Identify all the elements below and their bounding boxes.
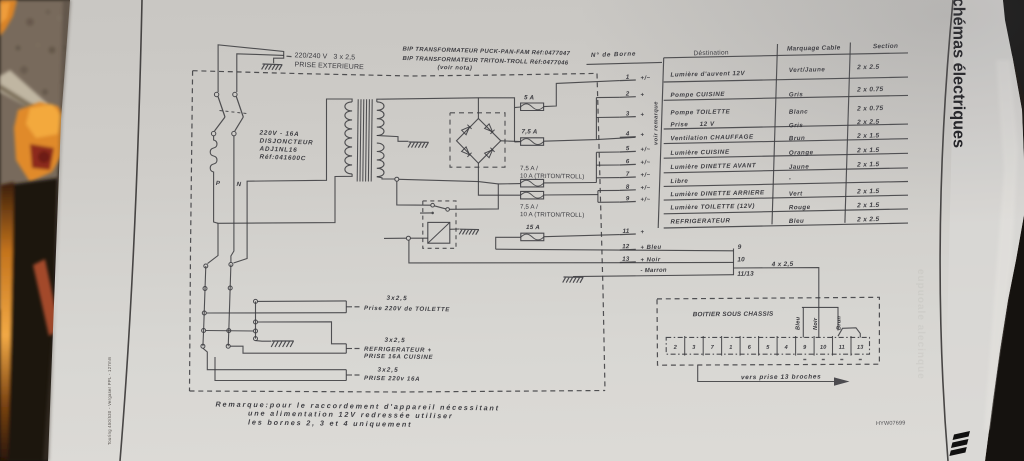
relay switch contact 2	[446, 208, 450, 212]
label 9	[738, 244, 742, 251]
svg-text:(voir nota): (voir nota)	[437, 65, 472, 72]
wire fuse bus to F1	[515, 106, 521, 109]
table column line marquage/section	[845, 43, 851, 223]
relay switch blade	[434, 206, 446, 209]
terminal 6 symbol	[640, 160, 650, 166]
drawing number HYW07699	[876, 420, 906, 427]
table row line 0	[664, 53, 908, 58]
terminal 12 tick	[620, 248, 636, 251]
table destination Libre	[670, 178, 688, 185]
wire P down to bus	[214, 180, 218, 223]
relay dashed box	[423, 201, 456, 248]
wire bridge DC+ to fuse bus	[501, 140, 521, 143]
terminal 1 tick	[620, 79, 636, 82]
node N bus 1	[229, 263, 233, 267]
label N	[236, 181, 241, 188]
label 7,5A / lower	[520, 204, 538, 211]
terminal 11 tick	[620, 233, 636, 236]
label voir nota	[437, 65, 472, 72]
label Brun rotated	[837, 315, 843, 330]
terminal 11 symbol	[640, 230, 644, 236]
page border line right (curved)	[940, 0, 953, 461]
shadow under paper left edge	[43, 0, 71, 461]
svg-text:ADJ1NL16: ADJ1NL16	[258, 145, 297, 153]
table row line 2	[664, 95, 908, 100]
wire F3 input	[449, 184, 520, 210]
label N de Borne	[591, 50, 637, 59]
publisher logo bottom-right corner	[949, 431, 970, 456]
terminal 5 symbol	[640, 147, 650, 153]
terminal strip separator 6	[776, 336, 778, 356]
breaker thermal element squiggle	[210, 136, 217, 180]
breaker pole P blade	[218, 97, 225, 118]
wire N down to bus	[231, 136, 234, 263]
node N bus 4	[226, 344, 230, 348]
terminal 4 tick	[620, 136, 636, 139]
wire secondary top to fuse bus	[478, 98, 514, 108]
table row line 7	[664, 182, 908, 187]
cable T-bar in boitier	[802, 306, 839, 308]
table section 2 x 1.5 152	[856, 147, 879, 154]
table destination REFRIGERATEUR	[670, 217, 730, 225]
terminal strip separator 5	[758, 336, 760, 356]
terminal 8 number	[626, 184, 630, 191]
terminal strip number 11	[839, 345, 845, 351]
terminal 7 tick	[620, 176, 636, 179]
node earth bus 2	[254, 320, 258, 324]
wire F1 output to terminal 1	[544, 81, 620, 107]
table row line 8	[664, 195, 908, 200]
outlet2 terminal dash	[355, 348, 360, 350]
svg-text:vers prise 13 broches: vers prise 13 broches	[741, 373, 821, 381]
label BIP TRANSFORMATEUR TRITON-TROLL	[402, 56, 568, 67]
svg-text:PRISE 220v 16A: PRISE 220v 16A	[364, 375, 420, 383]
table destination Lumière TOILETTE (12V)	[670, 203, 755, 212]
wire secondary junction to relay common	[397, 181, 431, 205]
svg-text:1: 1	[729, 345, 732, 351]
svg-text:Bleu: Bleu	[796, 316, 802, 330]
top-right paper shading	[500, 0, 1024, 300]
terminal 9 tick	[620, 201, 636, 204]
gold stick on carpet	[0, 70, 48, 114]
transformer primary bottom lead	[208, 174, 353, 264]
wire outlet3 line N	[215, 357, 346, 381]
wire outlet2 line earth	[258, 322, 347, 344]
table destination Lumière CUISINE	[670, 149, 730, 157]
terminal 4 symbol	[640, 132, 644, 138]
node battery feed circle	[406, 236, 410, 240]
table section 2 x 1.5 138	[856, 132, 879, 139]
breaker pole P lower contact	[211, 131, 215, 135]
wire outlet1 line P	[206, 312, 346, 314]
wire drop terminal 9	[802, 307, 804, 337]
node earth bus 3	[254, 329, 258, 333]
terminal 8 symbol	[640, 185, 650, 191]
jumper hump terminals 11-13	[838, 328, 860, 338]
label 15 A	[526, 224, 540, 231]
table marquage Vert 196	[789, 190, 803, 197]
svg-text:HYW07699: HYW07699	[876, 420, 906, 427]
wire outlet2 line N	[230, 346, 346, 353]
terminal strip number 1	[729, 345, 732, 351]
ground symbol prise exterieure	[262, 64, 283, 70]
transformer secondary winding lower half	[377, 143, 384, 177]
terminal strip box	[666, 337, 869, 354]
wire battery feed to relay coil	[410, 237, 427, 239]
terminal strip number 5	[766, 345, 770, 351]
label 220V - 16A DISJONCTEUR	[258, 129, 299, 138]
table destination Lumière DINETTE AVANT	[670, 162, 756, 171]
table marquage Gris 127	[789, 122, 804, 129]
fuse F5 15A	[521, 233, 544, 241]
label 10 A TRITON/TROLL lower	[520, 211, 584, 219]
label 7,5 A	[521, 128, 537, 135]
cable junction bus vertical	[733, 249, 735, 276]
jumper stub terminal 8	[598, 189, 620, 191]
node secondary bottom junction	[395, 177, 399, 181]
bridge diode D1 top-left	[462, 125, 472, 135]
terminal 1 number	[626, 74, 630, 81]
node P bus 5	[201, 344, 205, 348]
terminal 7 symbol	[640, 173, 650, 179]
terminal 5 number	[626, 145, 630, 152]
wire earth bus to ground symbol	[256, 340, 272, 343]
terminal 3 number	[626, 110, 630, 117]
dark background beyond paper bottom-right	[986, 218, 1024, 461]
terminal 7 number	[626, 171, 630, 178]
table marquage - 180	[789, 175, 792, 182]
label BIP TRANSFORMATEUR PUCK-PAN-FAM	[402, 47, 570, 58]
table section 2 x 0.75 92	[856, 86, 883, 94]
orange object top-left corner	[0, 0, 17, 36]
wire relay coil to ground	[450, 228, 460, 230]
carpet texture top-left	[0, 0, 72, 310]
label 7,5A / upper	[520, 165, 538, 172]
svg-text:3x2,5: 3x2,5	[384, 337, 405, 344]
terminal strip separator 7	[795, 336, 797, 356]
fuse F2 7.5A	[521, 138, 544, 146]
table section 2 x 1.5 167	[856, 161, 879, 168]
table column line destination/marquage	[772, 44, 778, 224]
label P	[216, 180, 221, 187]
terminal strip separator 4	[739, 336, 741, 356]
table row line 3	[664, 124, 908, 129]
table destination Prise 12 V	[670, 121, 715, 129]
jumper stub terminal 7	[596, 177, 619, 179]
ground symbol relay	[459, 229, 479, 235]
label vers prise 13 broches	[741, 373, 821, 381]
table row line 9	[664, 209, 908, 214]
bus earth vertical	[255, 301, 257, 338]
wire bridge top vertex to secondary	[477, 98, 479, 119]
remark note line1	[215, 400, 500, 413]
label Bleu rotated	[796, 316, 802, 330]
terminal 2 symbol	[640, 92, 644, 98]
table section 2 x 2.5 222	[856, 216, 879, 223]
label 220/240 V 3 x 2,5	[294, 52, 355, 61]
jumper bracket terminals 5-6-7	[595, 152, 597, 182]
table header Section	[873, 43, 898, 51]
node earth bus 4	[254, 337, 258, 341]
terminal 2 tick	[620, 96, 636, 99]
ghost bleed-through text right side	[915, 269, 926, 380]
terminal strip separator 8	[813, 336, 815, 356]
wire fuse feed bus vertical	[514, 108, 516, 142]
terminal 13 symbol	[640, 257, 660, 264]
terminal strip number 2	[673, 345, 678, 351]
terminal marron symbol	[640, 268, 667, 274]
svg-text:BOITIER SOUS CHASSIS: BOITIER SOUS CHASSIS	[693, 311, 774, 319]
node N bus 2	[228, 286, 232, 290]
paper right curled edge highlight	[944, 0, 1024, 461]
table section 2 x 1.5 194	[856, 188, 879, 195]
tiny rotated margin text bottom-left	[107, 356, 112, 445]
outlet1 terminal dash	[355, 306, 360, 308]
wire mains N to prise exterieure	[237, 54, 284, 92]
rectifier dashed box	[450, 113, 505, 167]
svg-text:N: N	[236, 181, 241, 188]
wire drop Brun	[837, 307, 839, 330]
breaker pole N lower contact	[232, 131, 236, 135]
wire outlet3 line P	[203, 348, 346, 370]
page title 'Schemas electriques' rotated	[950, 0, 968, 148]
svg-text:4: 4	[784, 345, 789, 351]
label 10 A TRITON/TROLL upper	[520, 173, 584, 181]
label 4 x 2,5	[771, 261, 794, 268]
terminal 3 tick	[620, 116, 636, 119]
label 5 A	[524, 94, 535, 101]
wire row marron from ground	[573, 275, 734, 277]
svg-text:PRISE 16A CUISINE: PRISE 16A CUISINE	[364, 353, 434, 361]
table row line 1	[664, 77, 908, 82]
breaker coupling dashed link	[220, 111, 247, 114]
bridge diode D2 top-right	[485, 124, 495, 134]
svg-text:11: 11	[839, 345, 845, 351]
table marquage Orange 155	[789, 149, 814, 157]
outlet1 terminal bracket	[345, 301, 347, 313]
terminal 2 number	[625, 90, 630, 97]
bus N vertical	[228, 265, 231, 347]
cable to boitier	[734, 268, 819, 338]
outlet2 terminal bracket	[345, 344, 347, 353]
jumper stub terminal 9	[598, 201, 620, 203]
terminal 12 symbol	[640, 245, 661, 252]
terminal 13 tick	[620, 261, 636, 264]
transformer primary top lead	[234, 99, 353, 263]
page border line left	[120, 0, 142, 461]
label 3x2,5 outlet3	[377, 367, 398, 374]
svg-text:3x2,5: 3x2,5	[386, 295, 407, 302]
jumper stub terminal 5	[596, 151, 619, 153]
svg-text:3x2,5: 3x2,5	[377, 367, 398, 374]
dark floor lower-left with lamp glow	[0, 178, 58, 461]
table marquage Rouge 209	[789, 204, 811, 211]
arrow vers prise 13 broches	[698, 365, 834, 381]
svg-text:10: 10	[820, 345, 827, 351]
table header Marquage Cable	[787, 44, 841, 52]
node P bus 3	[202, 311, 206, 315]
wire F2 output to terminal 4	[544, 137, 636, 141]
remark note line3	[248, 418, 413, 429]
terminal 12 number	[622, 243, 630, 250]
table destination Ventilation CHAUFFAGE	[670, 134, 754, 143]
relay switch lower contact dot	[431, 212, 434, 215]
terminal strip number 4	[784, 345, 789, 351]
orange toy object left side	[14, 102, 68, 182]
terminal strip number 13	[857, 345, 864, 351]
table destination Pompe TOILETTE	[670, 108, 730, 116]
ground symbol transformer center tap	[408, 142, 429, 148]
dark background beyond paper top-right corner	[1003, 0, 1024, 95]
table header Destination	[693, 49, 728, 57]
wire bus tie line	[206, 330, 254, 333]
ground symbol outlets	[271, 341, 294, 347]
table row line 6	[664, 168, 908, 173]
label REFRIGERATEUR +	[364, 346, 432, 354]
bus P vertical	[203, 266, 206, 346]
label 10	[737, 256, 745, 263]
terminal 6 tick	[620, 163, 636, 166]
boitier sous chassis dashed box	[657, 297, 879, 365]
outer dashed enclosure box	[193, 71, 597, 76]
terminal strip number 3	[692, 345, 696, 351]
table left border	[658, 58, 664, 228]
fuse F4 7.5A/10A	[521, 191, 544, 199]
node P bus 1	[204, 264, 208, 268]
label Noir rotated	[813, 317, 819, 330]
label 11/13	[737, 271, 754, 278]
node earth bus 1	[254, 299, 258, 303]
bridge diode D4 bottom-right	[485, 148, 495, 158]
svg-text:Noir: Noir	[813, 317, 819, 330]
wire F3 output to bracket 5-6-7	[544, 182, 597, 184]
wire F5 output to terminal 11	[544, 235, 620, 237]
label voir remarque rotated	[654, 101, 660, 145]
jumper bracket terminals 8-9	[597, 191, 599, 203]
fuse F1 5A	[521, 103, 544, 111]
fuse F3 7.5A/10A	[521, 179, 544, 187]
terminal strip number 6	[748, 345, 752, 351]
wire outlet1 line earth	[258, 300, 347, 303]
relay coil box	[428, 222, 450, 243]
node P bus 2	[203, 287, 207, 291]
table destination Lumière d'auvent 12V	[670, 70, 745, 79]
transformer secondary bottom lead	[377, 177, 395, 179]
terminal strip number 10	[820, 345, 827, 351]
label Prise 220V de TOILETTE	[364, 305, 450, 314]
wire secondary bottom to fuse F3 feed	[399, 179, 499, 184]
table marquage Gris 96	[789, 91, 804, 98]
table destination Pompe CUISINE	[670, 91, 725, 99]
breaker pole N blade	[236, 97, 243, 118]
terminal 1 symbol	[640, 76, 650, 82]
terminal 9 symbol	[640, 197, 650, 203]
table marquage Bleu 223	[789, 218, 805, 225]
wire row 13 Noir	[409, 240, 734, 263]
remark note line2	[248, 409, 454, 421]
jumper bracket terminals 2-3-4	[595, 98, 597, 140]
jumper stub terminal 2	[596, 96, 619, 98]
ground symbol marron	[563, 277, 584, 283]
terminal strip number 7	[711, 345, 715, 351]
terminal 8 tick	[620, 189, 636, 192]
table marquage Jaune 169	[789, 163, 810, 170]
transformer secondary top lead	[377, 98, 479, 102]
transformer secondary winding upper half	[377, 102, 384, 136]
table row line 10	[664, 223, 908, 228]
terminal strip separator 9	[832, 336, 834, 356]
svg-text:Prise 220V de TOILETTE: Prise 220V de TOILETTE	[364, 305, 450, 314]
wire F5 input from battery feed	[496, 237, 521, 249]
jumper stub terminal 6	[596, 164, 619, 166]
terminal dash prise exterieure	[287, 55, 292, 57]
underline N de Borne	[587, 62, 663, 64]
svg-text:Brun: Brun	[837, 315, 843, 330]
wire F4 output to bracket 8-9	[544, 194, 598, 196]
table marquage Blanc 114	[789, 108, 809, 115]
svg-text:13: 13	[857, 345, 864, 351]
table section 2 x 2.5 69	[856, 64, 879, 71]
wire battery feed left stub	[384, 237, 406, 239]
terminal strip number 9	[803, 345, 807, 351]
wire to relay lower contact	[420, 212, 431, 214]
bridge diamond	[457, 119, 501, 164]
table section 2 x 2.5 124	[856, 119, 879, 126]
node N bus 3	[227, 329, 231, 333]
node P bus 4	[202, 329, 206, 333]
wire row 12 Bleu	[496, 249, 734, 251]
outlet3 terminal bracket	[345, 370, 347, 381]
table section 2 x 1.5 207	[856, 202, 879, 209]
transformer secondary center tap to ground	[377, 136, 409, 142]
terminal 5 tick	[620, 150, 636, 153]
svg-text:Touring 450/530 - Vergaser PPL: Touring 450/530 - Vergaser PPL - 127mm	[107, 356, 112, 445]
table row line 5	[664, 153, 908, 158]
breaker pole N upper contact	[233, 92, 237, 96]
terminal strip separator 3	[721, 336, 723, 356]
terminal strip separator 10	[850, 336, 852, 356]
label 3x2,5 outlet2	[384, 337, 405, 344]
label PRISE EXTERIEURE	[294, 62, 364, 72]
terminal 3 symbol	[640, 112, 644, 118]
terminal 13 number	[622, 256, 630, 263]
table marquage Brun 140	[789, 135, 806, 142]
bridge diode D3 bottom-left	[462, 147, 472, 157]
polarity marks under strip	[803, 359, 806, 360]
outlet3 terminal dash	[355, 374, 360, 376]
label BOITIER SOUS CHASSIS	[693, 311, 774, 319]
terminal 9 number	[626, 195, 630, 202]
label PRISE 16A CUISINE	[364, 353, 434, 361]
wire fuse bus to F2	[515, 141, 521, 143]
table row line 4	[664, 139, 908, 144]
jumper stub terminal 3	[596, 116, 619, 118]
table section 2 x 0.75 111	[856, 105, 883, 113]
label 3x2,5 outlet1	[386, 295, 407, 302]
table marquage Vert/Jaune 72	[789, 66, 826, 74]
red stick bottom-left	[33, 259, 60, 336]
transformer core lines	[357, 99, 358, 181]
terminal 11 number	[623, 228, 630, 235]
transformer primary winding	[345, 102, 352, 174]
relay switch common contact	[431, 203, 435, 207]
wire mains P to prise exterieure	[218, 45, 284, 92]
breaker pole P upper contact	[214, 92, 218, 96]
terminal 4 number	[625, 130, 630, 137]
terminal strip separator 2	[702, 336, 704, 356]
table destination Lumière DINETTE ARRIERE	[670, 189, 765, 198]
terminal 6 number	[626, 158, 630, 165]
